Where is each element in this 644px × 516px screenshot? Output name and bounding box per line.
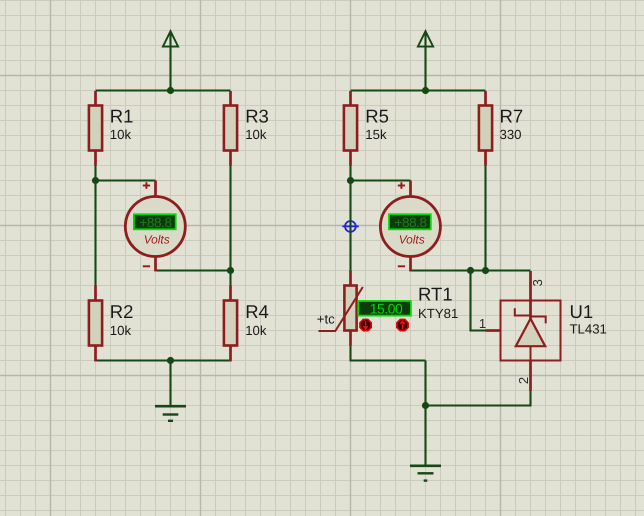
- svg-text:+88.8: +88.8: [395, 215, 427, 230]
- svg-text:15k: 15k: [365, 127, 387, 142]
- svg-text:R5: R5: [365, 106, 389, 127]
- svg-text:10k: 10k: [245, 323, 267, 338]
- svg-text:R3: R3: [245, 106, 269, 127]
- svg-text:+tc: +tc: [317, 312, 335, 327]
- svg-text:+88.8: +88.8: [139, 215, 171, 230]
- svg-text:R1: R1: [110, 106, 134, 127]
- svg-text:TL431: TL431: [570, 322, 607, 337]
- svg-text:10k: 10k: [110, 323, 132, 338]
- svg-text:U1: U1: [570, 301, 594, 322]
- svg-text:Volts: Volts: [399, 232, 425, 246]
- svg-text:R7: R7: [500, 106, 524, 127]
- svg-text:3: 3: [530, 279, 545, 286]
- svg-text:2: 2: [516, 377, 531, 384]
- svg-text:R2: R2: [110, 301, 134, 322]
- svg-text:10k: 10k: [245, 127, 267, 142]
- svg-text:10k: 10k: [110, 127, 132, 142]
- svg-text:R4: R4: [245, 301, 269, 322]
- svg-text:KTY81: KTY81: [418, 306, 458, 321]
- svg-text:RT1: RT1: [418, 284, 453, 305]
- svg-text:15.00: 15.00: [370, 300, 403, 316]
- svg-text:1: 1: [479, 316, 486, 331]
- svg-text:330: 330: [500, 127, 522, 142]
- svg-text:Volts: Volts: [144, 232, 170, 246]
